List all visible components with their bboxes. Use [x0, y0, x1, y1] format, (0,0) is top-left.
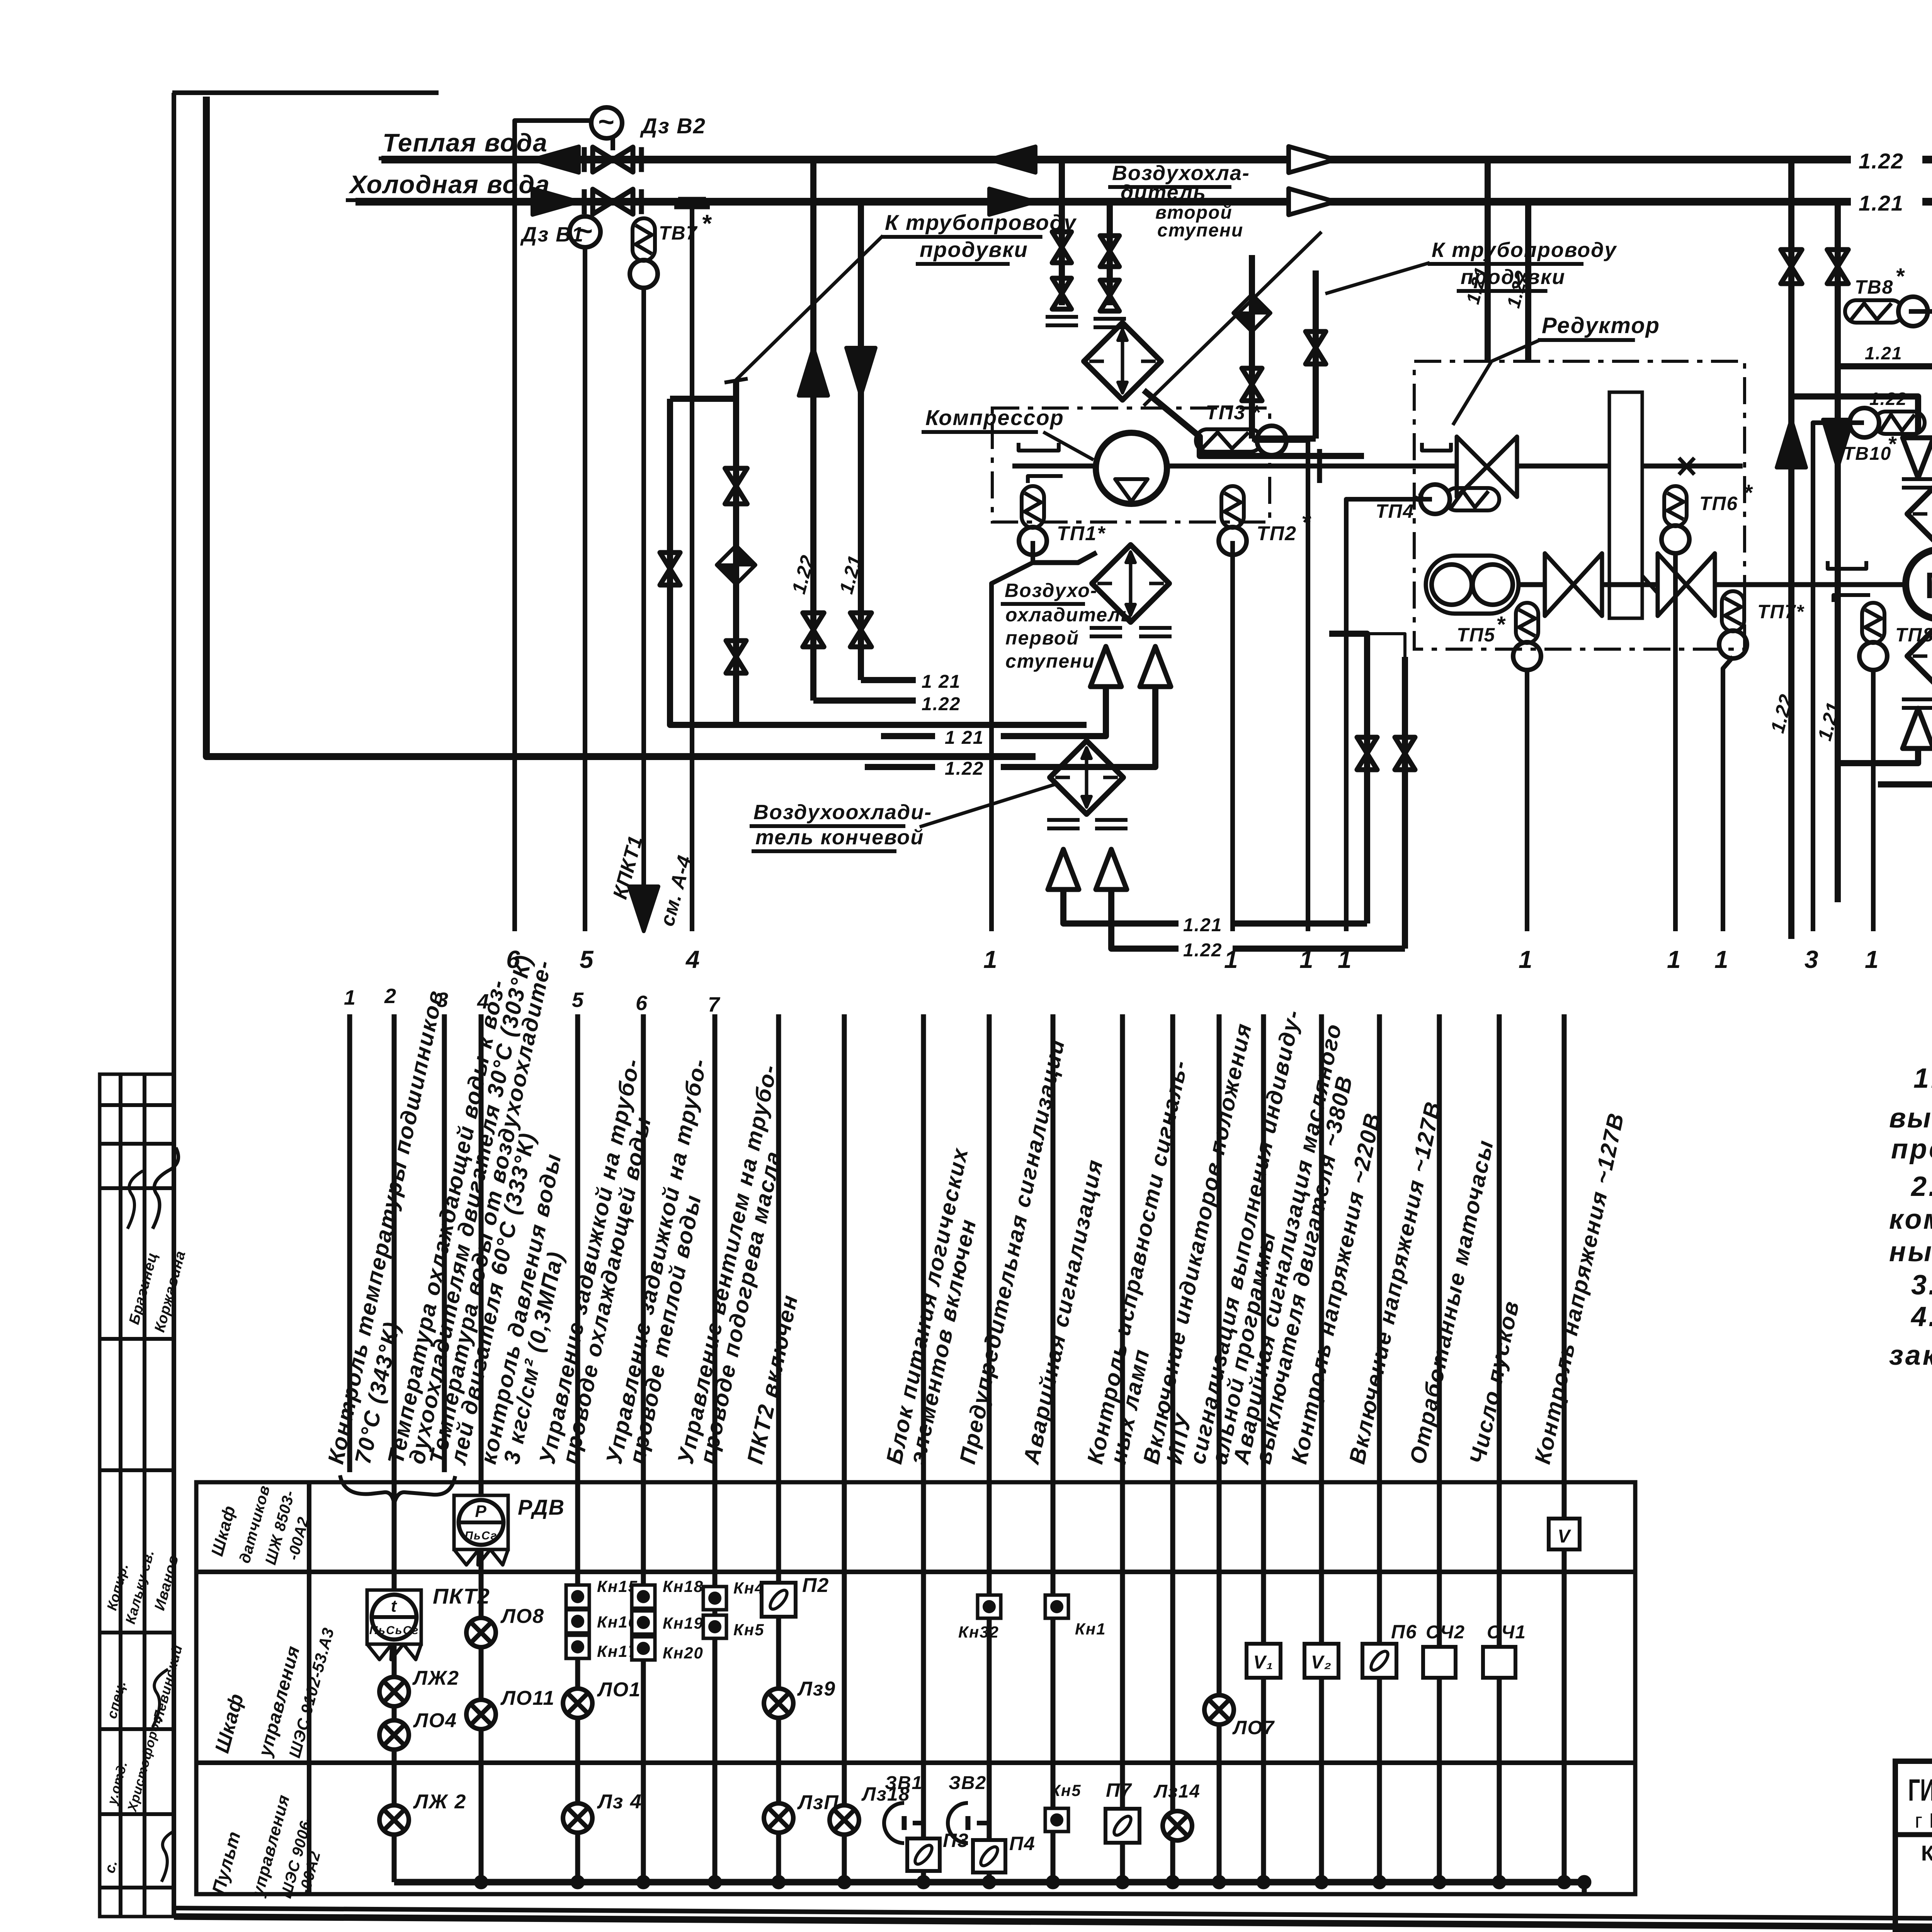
note line 2 [1889, 1103, 1932, 1134]
note line 1 [1913, 1063, 1932, 1094]
svg-text:2: 2 [384, 985, 397, 1008]
note line 7 [1911, 1270, 1932, 1301]
label ТВ10* [1843, 432, 1897, 464]
label Кн16 [597, 1613, 638, 1631]
svg-text:СЧ2: СЧ2 [1426, 1622, 1465, 1643]
svg-text:Лз14: Лз14 [1153, 1781, 1201, 1802]
note line 4 [1910, 1171, 1932, 1202]
tick on blowdown branch top [724, 379, 748, 383]
stamp sig squiggle 4 [162, 1831, 175, 1882]
instrument ДзВ1 circle [570, 216, 600, 931]
note line 3 [1891, 1134, 1932, 1165]
lamp ЛО7 [1204, 1695, 1234, 1725]
table signal columns [350, 1014, 1564, 1882]
end cooler label [750, 801, 932, 851]
svg-text:*: * [701, 209, 712, 237]
reducer dash-dot box [1414, 361, 1745, 649]
blowdown branch loop [670, 381, 1087, 725]
label Кн5 [733, 1621, 765, 1639]
wire tag 1 ТП2 [1224, 946, 1239, 973]
svg-text:1: 1 [983, 946, 998, 973]
stamp name Коржавина [151, 1249, 189, 1334]
svg-text:Кн5: Кн5 [1050, 1781, 1082, 1799]
label Кн32 [958, 1623, 999, 1641]
svg-text:ТП7*: ТП7* [1757, 601, 1804, 622]
open arrow to воздухоохладитель lower [1289, 189, 1335, 215]
cabinet table row divider 2 [196, 1760, 1635, 1765]
lower shaft left [1519, 582, 1545, 587]
stamp sig squiggle 2 [128, 1171, 143, 1229]
flow arrow cold water right [532, 189, 1036, 215]
svg-text:*: * [1496, 612, 1506, 637]
svg-text:ГИПРОСТРОЙДОРМАШ: ГИПРОСТРОЙДОРМАШ [1908, 1772, 1932, 1807]
column number 3 [437, 988, 449, 1012]
1st stage cooler label [1001, 580, 1133, 672]
lamp ЛЖ2 cabinet [379, 1677, 409, 1706]
mid riser 3636 [1402, 657, 1408, 949]
label П7 [1106, 1779, 1132, 1801]
button Кн18 [632, 1585, 655, 1608]
flow arrow warm water left [532, 146, 1036, 173]
svg-text:Воздухо-: Воздухо- [1005, 580, 1098, 601]
end cooler diamond [1050, 741, 1123, 814]
svg-text:1.Функциональная схема автом: 1.Функциональная схема автоматизации [1913, 1063, 1932, 1094]
engine cooler bottom return [1840, 748, 1932, 784]
button Кн4 [703, 1587, 726, 1610]
label П6 [1391, 1621, 1417, 1643]
button Кн17 [566, 1635, 589, 1658]
svg-text:ТП5: ТП5 [1457, 624, 1495, 646]
button Кн5 console [1045, 1808, 1068, 1832]
svg-text:РДВ: РДВ [518, 1495, 565, 1519]
label Кн15 [597, 1577, 638, 1595]
callout diagonal второй ступени [1144, 232, 1321, 406]
column number 1 [344, 986, 356, 1009]
end cooler combs [1047, 820, 1128, 828]
valve Дз В1 [584, 189, 641, 214]
combs below lower diamond [1902, 699, 1932, 708]
thermometer ТП7 [1719, 591, 1747, 931]
svg-text:Холодная вода: Холодная вода [348, 170, 550, 199]
check valves below engine cooler [1903, 708, 1932, 748]
riser 1.21 to motor [1823, 202, 1852, 902]
valve on blowdown branch [725, 468, 747, 504]
svg-text:охладитель: охладитель [1005, 604, 1133, 626]
svg-text:1: 1 [344, 986, 356, 1009]
svg-text:1: 1 [1338, 946, 1352, 973]
1st stage cooler combs [1090, 628, 1172, 636]
label ТВ7 [659, 209, 712, 244]
svg-text:К трубопроводу: К трубопроводу [885, 210, 1077, 235]
label П2 [802, 1574, 829, 1597]
svg-text:П6: П6 [1391, 1621, 1417, 1643]
branch to 2nd stage cooler A [1059, 160, 1065, 305]
valve on stub B [1306, 332, 1326, 364]
svg-text:7: 7 [708, 993, 721, 1016]
gearbox tall rect [1609, 392, 1642, 618]
thermometer ТП4 [1346, 485, 1499, 931]
relay П2 [762, 1583, 796, 1617]
svg-text:V₂: V₂ [1311, 1652, 1332, 1673]
relay П4 [973, 1840, 1005, 1872]
label Холодная вода [346, 170, 550, 200]
rotated label 1.22 [788, 553, 819, 596]
label ТП7* [1757, 601, 1804, 622]
label Редуктор [1453, 313, 1660, 425]
brace joining columns 1-3 [340, 1475, 455, 1504]
label ЗВ2 [949, 1773, 986, 1793]
label 1.21 on pipe [1859, 191, 1904, 215]
label ТП2* [1257, 509, 1311, 545]
thermometer ТП6 [1662, 486, 1689, 931]
svg-text:г Ростов-на-Дону 1976г: г Ростов-на-Дону 1976г [1915, 1809, 1932, 1832]
svg-text:продувки: продувки [920, 237, 1028, 262]
label ЛО1 [597, 1679, 641, 1701]
compressor shaft [1012, 449, 1356, 483]
svg-text:ЛЖ 2: ЛЖ 2 [413, 1791, 466, 1813]
label ДзВ1 [520, 223, 584, 246]
svg-text:компрессорного агрегата №1,: компрессорного агрегата №1, для компресс… [1889, 1204, 1932, 1235]
stamp label Копир [104, 1561, 131, 1612]
valve Дз В2 [584, 107, 641, 172]
svg-text:первой: первой [1005, 627, 1079, 649]
wire tag 6 [506, 946, 521, 973]
svg-text:1.21: 1.21 [1183, 915, 1222, 935]
button Кн1 [1045, 1595, 1068, 1618]
svg-text:Кн32: Кн32 [958, 1623, 999, 1641]
lower gear pair 2 [1658, 553, 1715, 616]
svg-text:t: t [391, 1597, 398, 1616]
label ЛО8 [500, 1605, 544, 1628]
thermometer ТП1 [1019, 486, 1047, 563]
label ТП6* [1699, 480, 1753, 514]
svg-text:П7: П7 [1106, 1779, 1132, 1801]
end cooler return 1.22 [1111, 889, 1405, 961]
lamp ЛО4 [379, 1720, 409, 1750]
label П3 [943, 1830, 969, 1851]
label 1.21 return [922, 672, 961, 692]
svg-text:1: 1 [1667, 946, 1682, 973]
label 1.22 return [922, 694, 961, 714]
svg-text:заказываются с настоящим пр: заказываются с настоящим проектом. [1889, 1340, 1932, 1371]
svg-text:1: 1 [1714, 946, 1729, 973]
label КОМПРЕССОРНАЯ [1921, 1841, 1932, 1865]
column number 2 [384, 985, 397, 1008]
lower gear pair 1 [1545, 553, 1602, 616]
svg-text:ных агрегатов №2-6 схема а: ных агрегатов №2-6 схема аналогична. [1889, 1236, 1932, 1267]
svg-text:5: 5 [580, 946, 594, 973]
rotated label 1.21 [835, 553, 866, 596]
svg-text:*: * [1895, 264, 1905, 289]
relay П3 [907, 1838, 940, 1871]
label V1 none [0, 0, 0, 0]
lamp Лз9 [764, 1689, 793, 1718]
svg-text:1 21: 1 21 [945, 728, 984, 748]
valve B2 [1100, 280, 1119, 311]
ТП1 wire drop [992, 563, 1033, 931]
lamp ЛО1 [563, 1689, 592, 1718]
1st stage return 1.21 [881, 688, 1106, 748]
cabinet table outer box [196, 1482, 1635, 1894]
svg-text:М: М [1925, 565, 1932, 606]
air cooler 2nd stage diamond [1084, 323, 1161, 400]
column number 6 [636, 992, 648, 1015]
svg-text:1: 1 [1865, 946, 1879, 973]
svg-text:1.22: 1.22 [1183, 940, 1222, 961]
svg-text:Лз 4: Лз 4 [597, 1791, 642, 1813]
thermometer ТП5 [1513, 603, 1541, 931]
bell ЗВ1 [884, 1803, 923, 1843]
svg-text:Редуктор: Редуктор [1542, 313, 1660, 338]
combs above engine cooler [1902, 479, 1932, 488]
label П4 [1009, 1833, 1036, 1854]
stamp name Иванов [151, 1553, 182, 1612]
stamp label с [102, 1858, 121, 1875]
logo ГИПРОСТРОЙДОРМАШ [1908, 1772, 1932, 1807]
label Лз4 [597, 1791, 642, 1813]
wire tag 1 ТП5 [1519, 946, 1533, 973]
voltmeter V2 [1304, 1644, 1338, 1678]
svg-text:Дз В2: Дз В2 [640, 114, 706, 138]
label ЛО7 [1232, 1717, 1275, 1738]
title block outer [1895, 1761, 1932, 1930]
svg-text:ПКТ2: ПКТ2 [433, 1584, 490, 1608]
label ПКТ2 [433, 1584, 490, 1608]
lamp Лз18 [830, 1805, 859, 1835]
left feeder line from sheet top [206, 97, 1036, 757]
callout leader to продувки label [736, 236, 883, 380]
label Лз9 [797, 1678, 836, 1700]
svg-text:П2: П2 [802, 1574, 829, 1597]
compressor circle [1096, 433, 1167, 504]
label Кн18 [663, 1577, 704, 1595]
wire tag 1 ТП8 [1865, 946, 1879, 973]
counter СЧ2 [1423, 1647, 1456, 1678]
pressure device РДВ [454, 1495, 508, 1565]
ТП3 wire drop [1253, 440, 1308, 931]
svg-text:6: 6 [636, 992, 648, 1015]
rotated labels underlines [335, 1041, 451, 1471]
blowdown line T cap [674, 199, 710, 931]
label К трубопроводу продувки [881, 210, 1077, 264]
svg-text:тель кончевой: тель кончевой [755, 826, 924, 849]
label РДВ [518, 1495, 565, 1519]
title block left horizontal divider [1895, 1832, 1932, 1837]
label ТП4* [1376, 489, 1424, 522]
wire tag 1 ТП4 [1338, 946, 1352, 973]
label ТП1* [1057, 522, 1106, 545]
svg-text:Воздухоохлади-: Воздухоохлади- [753, 801, 932, 824]
blowdown stub B [1313, 270, 1319, 439]
label СЧ2 [1426, 1622, 1465, 1643]
temperature device ПКТ2 [367, 1590, 421, 1660]
thermometer ТВ10 [1813, 408, 1925, 931]
upper gear pair [1457, 437, 1517, 497]
svg-text:ЛО4: ЛО4 [413, 1709, 457, 1732]
row header Пульт управления [208, 1793, 324, 1900]
bell ЗВ2 [948, 1803, 989, 1843]
mid riser 3538 [1364, 657, 1370, 923]
border frame top-left segment [172, 90, 439, 95]
svg-text:Компрессор: Компрессор [925, 405, 1064, 430]
upper shaft cross [1679, 458, 1694, 474]
lamp Лз14 [1163, 1811, 1192, 1840]
valve on 3636 [1395, 737, 1415, 770]
svg-text:Дз В1: Дз В1 [520, 223, 584, 246]
svg-text:ТП1*: ТП1* [1057, 522, 1106, 545]
stamp strip rows [100, 1105, 174, 1888]
lower shaft mid [1602, 576, 1658, 593]
label Кн1 [1075, 1620, 1106, 1638]
thermometer ТП2 [1219, 486, 1247, 931]
motor shaft joint [1816, 582, 1932, 587]
drop line 2nd stage cooler [0, 0, 0, 0]
svg-text:1.22: 1.22 [1869, 389, 1907, 409]
lamp ЛО8 [466, 1618, 496, 1647]
svg-text:*: * [1414, 489, 1424, 514]
button Кн15 [566, 1585, 589, 1608]
svg-text:4: 4 [685, 946, 701, 973]
comb A [1046, 317, 1078, 325]
wire tag 4 [685, 946, 701, 973]
label ДзВ2 [640, 114, 706, 138]
motor circle M [1906, 549, 1932, 619]
label ТВ8* [1855, 264, 1905, 298]
svg-text:предприятия ⁿ/я М5878.: предприятия ⁿ/я М5878. [1891, 1134, 1932, 1165]
label Кн19 [663, 1614, 704, 1632]
label ЛзП [797, 1791, 839, 1814]
voltmeter V row1 [1549, 1519, 1580, 1549]
riser 1.22 to motor [1777, 160, 1806, 939]
note line 8 [1910, 1301, 1932, 1332]
thermometer ТП8 [1859, 603, 1887, 931]
oil pump ovals [1426, 556, 1519, 614]
bearing bracket reducer top [1422, 443, 1451, 451]
svg-text:1: 1 [1519, 946, 1533, 973]
label ЛО4 [413, 1709, 457, 1732]
lamp Лз4 [563, 1803, 592, 1833]
label Кн20 [663, 1644, 704, 1662]
compressor dash-dot box [992, 408, 1270, 522]
wire tag 1 ТП6 [1667, 946, 1682, 973]
stamp label Кальку св [122, 1548, 157, 1626]
riser 1.21 with down arrow [846, 202, 916, 680]
wire tag 1 ТП7 [1714, 946, 1729, 973]
svg-text:ТП6: ТП6 [1699, 493, 1738, 514]
svg-text:3: 3 [1804, 946, 1819, 973]
svg-text:ТВ8: ТВ8 [1855, 276, 1893, 298]
label Компрессор [922, 405, 1094, 460]
check valves above engine cooler [1903, 438, 1932, 478]
svg-text:1.22: 1.22 [1859, 149, 1904, 173]
svg-text:ПьСьСг: ПьСьСг [369, 1624, 419, 1637]
riser 1.22 reducer [1503, 202, 1532, 361]
label ТП3* [1206, 401, 1261, 424]
valve on branch left leg [660, 553, 680, 585]
wire tag 3 [1804, 946, 1819, 973]
riser 1.22 with up arrow [799, 160, 916, 701]
thermometer ТВ7 [630, 218, 658, 889]
blowdown stub A [1249, 255, 1255, 439]
svg-text:Кн18: Кн18 [663, 1577, 704, 1595]
logo city line [1915, 1809, 1932, 1832]
thermometer ТП3 horizontal [1196, 426, 1286, 455]
valve on riser 1.22 [803, 613, 824, 647]
label СЧ1 [1487, 1622, 1526, 1643]
wire tag 1 ТП1 [983, 946, 998, 973]
svg-text:КОМПРЕССОРНАЯ: КОМПРЕССОРНАЯ [1921, 1841, 1932, 1865]
label ТП5* [1457, 612, 1506, 646]
label ЛЖ2 cabinet [412, 1667, 459, 1689]
valve on riser 1.21 [850, 613, 872, 647]
cabinet table row divider 1 [196, 1570, 1635, 1574]
stamp label спец [104, 1679, 129, 1720]
label Лз14 [1153, 1781, 1201, 1802]
svg-text:Кн19: Кн19 [663, 1614, 704, 1632]
button Кн16 [566, 1610, 589, 1633]
stamp sig squiggle 1 [153, 1148, 179, 1229]
svg-text:V₁: V₁ [1253, 1652, 1274, 1673]
lamp ЛзП [764, 1803, 793, 1833]
svg-text:выполнена на основании черт: выполнена на основании чертежей УКАС 00.… [1889, 1103, 1932, 1134]
stamp strip box [100, 1074, 174, 1917]
valve A2 [1052, 278, 1071, 309]
1st stage check valves [1090, 646, 1171, 687]
svg-text:4.* Приборы поз. ТП1 - ТП9 ;: 4.* Приборы поз. ТП1 - ТП9 ; ТВ7 - ТВ10 [1910, 1301, 1932, 1332]
bearing bracket M left [1828, 561, 1870, 602]
row header Шкаф датчиков [207, 1483, 312, 1567]
svg-text:ступени: ступени [1005, 650, 1095, 672]
svg-text:1.22: 1.22 [922, 694, 961, 714]
arrow КПКТ1 line end [609, 833, 696, 931]
svg-text:ЛО11: ЛО11 [500, 1687, 555, 1709]
lower shaft right [1715, 582, 1816, 587]
wire tag 1 ТП3 [1299, 946, 1314, 973]
svg-text:ТП8*: ТП8* [1895, 624, 1932, 646]
svg-text:3.Условные обозначения см. л: 3.Условные обозначения см. лист А-3 [1911, 1270, 1932, 1301]
button Кн19 [632, 1611, 655, 1634]
lamp ЛО11 [466, 1700, 496, 1729]
svg-text:ТВ10: ТВ10 [1843, 444, 1891, 464]
label Кн4 [733, 1579, 765, 1597]
label воздухохла-дитель второй ступени [1108, 162, 1250, 241]
svg-text:1.21: 1.21 [1859, 191, 1904, 215]
svg-text:1.21: 1.21 [1865, 343, 1903, 363]
end cooler check valves [1048, 849, 1127, 889]
1st stage return 1.22 [865, 688, 1155, 779]
2nd stage cooler outlet [1144, 390, 1364, 456]
stamp name Брагинец [126, 1251, 161, 1327]
counter СЧ1 [1483, 1647, 1515, 1678]
svg-text:К трубопроводу: К трубопроводу [1432, 238, 1617, 262]
valve B1 [1100, 236, 1119, 267]
label ЗВ1 [885, 1773, 923, 1793]
svg-text:*: * [1743, 480, 1753, 505]
stamp name Левинский [150, 1643, 185, 1723]
note line 5 [1889, 1204, 1932, 1235]
svg-text:*: * [1888, 432, 1897, 456]
open arrow to воздухоохладитель upper [1289, 146, 1335, 173]
svg-text:ПьСг: ПьСг [464, 1529, 497, 1542]
comb B [1094, 319, 1126, 327]
engine air cooler lower diamond [1907, 621, 1932, 691]
svg-text:1.22: 1.22 [945, 759, 984, 779]
svg-text:П4: П4 [1009, 1833, 1036, 1854]
svg-text:ЗВ1: ЗВ1 [885, 1773, 923, 1793]
svg-text:СЧ1: СЧ1 [1487, 1622, 1526, 1643]
svg-text:P: P [475, 1502, 487, 1521]
note line 6 [1889, 1236, 1932, 1267]
